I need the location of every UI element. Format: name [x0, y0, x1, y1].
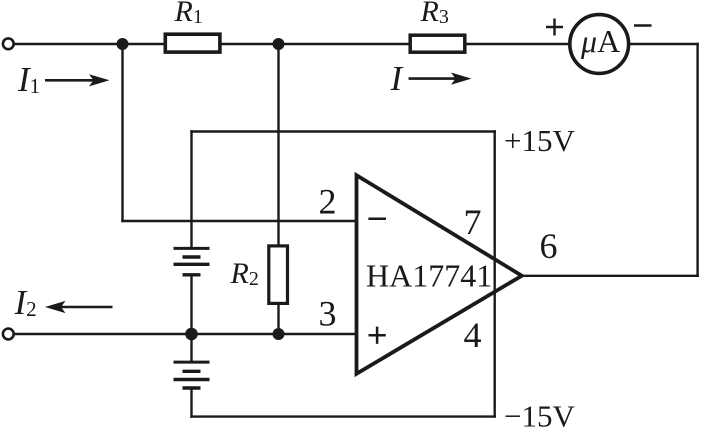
resistor R1	[165, 34, 220, 52]
wire non-inverting input pin 3	[13, 333, 358, 335]
svg-text:HA17741: HA17741	[366, 258, 492, 294]
wire supply rail top +15V	[190, 130, 496, 132]
ammeter plus sign	[546, 19, 563, 36]
wire R2 bottom to node J4	[277, 303, 279, 335]
svg-text:+15V: +15V	[504, 123, 575, 158]
wire R1 to R3	[221, 43, 411, 45]
current arrow I	[409, 73, 472, 85]
wire right vertical down to output	[696, 43, 698, 277]
svg-text:−15V: −15V	[504, 398, 575, 429]
wire output from op-amp apex	[520, 275, 699, 277]
wire left rail between battery and node J3	[190, 275, 192, 336]
svg-text:6: 6	[540, 226, 558, 266]
wire left rail node J3 to battery 2	[190, 334, 192, 362]
wire left rail upper segment	[190, 130, 192, 249]
current arrow I2	[45, 301, 113, 313]
wire inverting input pin 2	[121, 220, 358, 222]
resistor R3	[410, 35, 465, 52]
wire meter to right corner	[628, 43, 699, 45]
svg-text:3: 3	[319, 294, 337, 334]
node J1	[117, 38, 129, 50]
op-amp U1 HA17741	[357, 175, 522, 374]
svg-text:7: 7	[464, 202, 482, 242]
svg-text:2: 2	[319, 182, 337, 222]
op-amp minus input sign	[368, 217, 386, 220]
ammeter minus sign	[634, 24, 652, 26]
node J2	[273, 38, 285, 50]
battery B1	[174, 248, 210, 274]
wire supply rail bottom -15V	[190, 415, 496, 417]
op-amp plus input sign	[369, 327, 386, 344]
wire R3 to meter	[465, 43, 571, 45]
terminal input 2	[3, 329, 14, 340]
svg-text:4: 4	[464, 315, 482, 355]
terminal input 1	[3, 38, 14, 49]
wire top from terminal to R1	[13, 43, 166, 45]
wire left rail battery 2 to bottom corner	[190, 388, 192, 418]
node J4	[273, 328, 285, 340]
wire vertical from node J1 down	[121, 42, 123, 222]
wire supply rail right vertical	[494, 130, 496, 418]
svg-text:μA: μA	[580, 23, 620, 59]
ammeter M1	[570, 15, 629, 74]
current arrow I1	[45, 74, 110, 86]
resistor R2	[269, 246, 288, 304]
wire vertical from node J2 down to R2	[277, 42, 279, 247]
node J3	[185, 328, 198, 341]
battery B2	[174, 362, 210, 388]
